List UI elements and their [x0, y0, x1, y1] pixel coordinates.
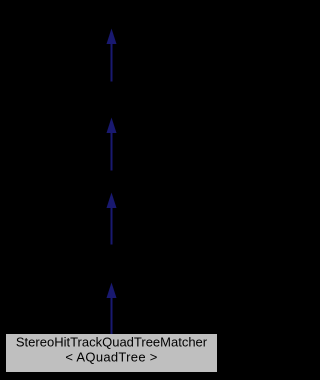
- svg-text:StereoHitTrackQuadTreeMatcher: StereoHitTrackQuadTreeMatcher: [16, 335, 208, 350]
- node StereoHitTrackQuadTreeMatcher box: [6, 334, 217, 372]
- inheritance arrow 2: [107, 118, 117, 171]
- inheritance arrow 1 (topmost): [107, 29, 117, 82]
- inheritance arrow 3: [107, 193, 117, 245]
- svg-text:< AQuadTree >: < AQuadTree >: [65, 350, 157, 365]
- inheritance arrow 4 (into node box): [107, 283, 117, 335]
